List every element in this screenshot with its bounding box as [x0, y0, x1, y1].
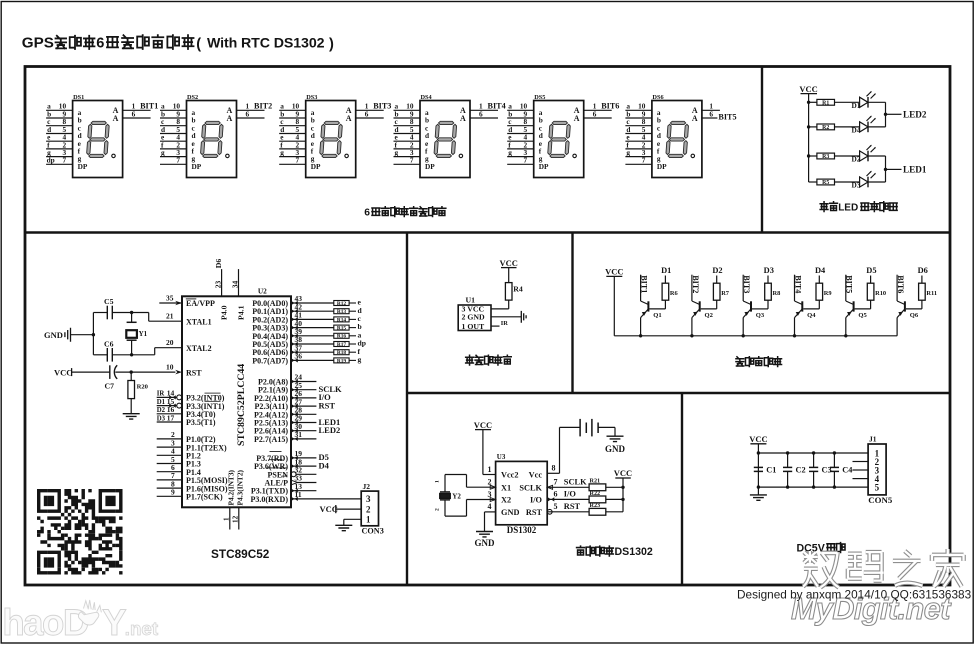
pin 30 P2.6(A14) net LED2 [254, 422, 340, 436]
svg-text:RST: RST [564, 502, 581, 511]
svg-text:GND: GND [475, 538, 496, 548]
pin 5 RST pullup resistor R23 [547, 502, 623, 515]
svg-text:D6: D6 [918, 266, 928, 275]
svg-text:GND: GND [44, 330, 63, 340]
svg-text:P1.7(SCK): P1.7(SCK) [186, 493, 223, 502]
svg-text:Y2: Y2 [452, 492, 461, 500]
svg-text:6: 6 [709, 109, 713, 118]
svg-text:BIT2: BIT2 [691, 275, 700, 293]
svg-text:12: 12 [232, 515, 240, 523]
svg-text:LED2: LED2 [319, 425, 341, 435]
transistor Q5 [844, 275, 867, 338]
ground (J2) [344, 518, 361, 520]
ground (battery) [607, 436, 624, 441]
pin 35 EA/VPP [159, 302, 182, 304]
svg-text:7: 7 [62, 156, 66, 165]
svg-text:R10: R10 [875, 290, 886, 297]
svg-text:7: 7 [642, 156, 646, 165]
svg-text:STC89C52: STC89C52 [211, 547, 270, 561]
svg-text:8: 8 [552, 464, 556, 473]
crystal Y2 [440, 491, 450, 493]
svg-text:21: 21 [166, 312, 174, 321]
svg-text:BIT5: BIT5 [718, 113, 736, 122]
svg-text:I/O: I/O [530, 496, 543, 505]
svg-text:A: A [346, 114, 352, 123]
op-amp U2 MCU STC89C52PLCC44 box [182, 296, 291, 507]
svg-text:6: 6 [554, 489, 558, 498]
svg-text:SCLK: SCLK [564, 478, 587, 487]
main schematic border [25, 67, 950, 586]
QR code [37, 489, 123, 575]
pin 25 P2.1(A9) net SCLK [258, 381, 342, 395]
7-segment display DS4 [394, 94, 506, 178]
svg-text:I/O: I/O [564, 490, 577, 499]
svg-text:VCC: VCC [474, 420, 492, 430]
pin 16 P3.4(T0) net D2 [157, 405, 216, 419]
svg-text:R7: R7 [721, 290, 730, 297]
pin 3 P1.1(T2EX) [157, 438, 227, 452]
pin 11 P3.0(RXD) [250, 490, 361, 504]
watermark: haoDIY.net [2, 600, 158, 643]
svg-text:R12: R12 [337, 301, 347, 307]
svg-text:36: 36 [295, 352, 303, 361]
svg-text:R9: R9 [824, 290, 832, 297]
pin 26 P2.2(A10) net I/O [254, 389, 331, 403]
svg-text:R5: R5 [822, 180, 829, 186]
transistor Q2 [690, 275, 713, 338]
svg-text:XTAL2: XTAL2 [186, 344, 212, 353]
pin 9 P1.7(SCK) [157, 488, 223, 502]
svg-text:RST: RST [526, 508, 543, 517]
capacitor C7 [72, 371, 110, 373]
svg-text:DP: DP [311, 162, 321, 171]
svg-text:VCC: VCC [499, 258, 517, 268]
crystal loop wires [445, 474, 467, 476]
svg-text:Designed by anxqm 2014/10 QQ:6: Designed by anxqm 2014/10 QQ:631536383 [737, 588, 972, 602]
svg-text:(: ( [196, 36, 201, 52]
ground (R20) [123, 414, 140, 419]
LED D4 [835, 116, 886, 135]
section divider: IR / digit driver [571, 233, 573, 394]
wire LED1 join [885, 156, 887, 182]
pin 36 P0.7(AD7) resistor R19 net g [252, 352, 361, 366]
svg-text:6: 6 [246, 109, 250, 118]
svg-text:BIT5: BIT5 [845, 275, 854, 293]
pin 2 P1.0(T2) [157, 430, 216, 444]
svg-text:U3: U3 [497, 453, 506, 461]
svg-text:R22: R22 [590, 490, 601, 497]
capacitor C1 [754, 451, 777, 489]
pin 39 P0.4(AD4) resistor R16 net a [252, 327, 361, 341]
svg-text:BIT1: BIT1 [140, 102, 158, 111]
resistor R1 [807, 99, 835, 106]
svg-text:Q1: Q1 [653, 312, 661, 319]
wire U1 pin3 VCC [491, 308, 509, 310]
svg-text:R21: R21 [590, 478, 601, 485]
wire pin 1 P4.2 [229, 507, 231, 529]
pin 43 P0.0(AD0) resistor R12 net e [252, 294, 361, 308]
svg-text:LED2: LED2 [903, 109, 927, 119]
pin 17 P3.5(T1) net D3 [157, 413, 216, 427]
svg-text:31: 31 [295, 430, 303, 439]
svg-text:VCC: VCC [799, 84, 817, 94]
svg-text:GND: GND [605, 444, 626, 454]
svg-text:D4: D4 [815, 266, 826, 275]
wire gnd to rails [71, 334, 94, 336]
svg-text:6: 6 [479, 109, 483, 118]
svg-text:P4.1: P4.1 [236, 305, 245, 320]
svg-text:P4.0: P4.0 [220, 305, 229, 320]
label: red LED seconds dots [820, 202, 828, 212]
resistor R5 [809, 179, 835, 186]
svg-text:D5: D5 [866, 266, 876, 275]
svg-text:R20: R20 [137, 383, 149, 390]
svg-text:1: 1 [366, 515, 371, 525]
svg-text:R6: R6 [670, 290, 679, 297]
svg-text:D1: D1 [852, 101, 861, 110]
pin 28 P2.4(A12) [254, 406, 316, 420]
svg-text:DS2: DS2 [187, 94, 198, 101]
svg-text:D2: D2 [852, 155, 861, 164]
svg-text:STC89C52PLCC44: STC89C52PLCC44 [236, 364, 247, 446]
svg-text:1: 1 [435, 480, 441, 483]
resistor R4 [508, 268, 510, 283]
resistor R11 net D6 [906, 266, 937, 309]
watermark: shuma zhijia (数码之家) [803, 551, 839, 587]
svg-text:4: 4 [488, 502, 492, 511]
svg-text:A: A [574, 114, 580, 123]
svg-text:DS1302: DS1302 [615, 546, 653, 558]
svg-text:R16: R16 [337, 334, 347, 340]
svg-text:GPS: GPS [22, 35, 54, 52]
wire U1 pin2 GND + side ground [491, 316, 521, 318]
svg-text:g: g [395, 148, 399, 157]
svg-text:R8: R8 [773, 290, 781, 297]
svg-text:U1: U1 [466, 295, 476, 304]
pin 8 P1.6(MISO) [157, 479, 228, 493]
resistor R10 net D5 [855, 266, 887, 309]
pin 37 P0.6(AD6) resistor R18 net f [252, 343, 360, 357]
wire U1 pin1 OUT net IR [491, 325, 500, 327]
svg-text:23: 23 [214, 280, 223, 288]
pin 7 SCLK pullup resistor R21 [547, 477, 625, 490]
svg-text:GND: GND [501, 508, 519, 517]
svg-text:P0.7(AD7): P0.7(AD7) [252, 356, 288, 365]
connector J1 CON5 [868, 444, 886, 495]
svg-text:BIT2: BIT2 [254, 102, 272, 111]
svg-text:P3.5(T1): P3.5(T1) [186, 418, 216, 427]
pin 6 I/O pullup resistor R22 [547, 489, 625, 502]
svg-text:R13: R13 [337, 309, 347, 315]
svg-text:D1: D1 [661, 266, 671, 275]
svg-text:10: 10 [166, 363, 174, 372]
battery BT1 [579, 419, 581, 437]
svg-text:.net: .net [125, 618, 158, 639]
svg-text:1: 1 [223, 517, 231, 521]
svg-text:BIT4: BIT4 [488, 102, 506, 111]
transistor Q6 [897, 275, 919, 336]
svg-text:17: 17 [167, 413, 175, 422]
pin 41 P0.2(AD2) resistor R14 net c [252, 311, 361, 325]
svg-text:XTAL1: XTAL1 [186, 317, 212, 326]
svg-text:DP: DP [192, 162, 202, 171]
svg-text:VCC: VCC [614, 468, 632, 478]
svg-text:LED1: LED1 [903, 164, 927, 174]
svg-text:g: g [508, 148, 512, 157]
svg-text:C7: C7 [105, 381, 115, 390]
svg-text:D3: D3 [157, 415, 166, 422]
capacitor C2 [783, 451, 806, 489]
wire LED2 join [885, 102, 887, 127]
svg-text:CON5: CON5 [868, 495, 893, 505]
svg-text:J1: J1 [869, 435, 877, 444]
svg-text:1 OUT: 1 OUT [462, 322, 486, 331]
svg-text:haoD: haoD [2, 602, 87, 643]
svg-text:A: A [113, 114, 119, 123]
pin 5 P1.3 [157, 455, 201, 469]
svg-text:C2: C2 [796, 465, 806, 474]
svg-text:R4: R4 [513, 285, 523, 294]
resistor R7 net D2 [701, 266, 730, 309]
svg-text:5: 5 [875, 482, 880, 492]
svg-text:g: g [161, 148, 165, 157]
svg-text:BIT4: BIT4 [793, 275, 802, 293]
svg-text:D4: D4 [852, 126, 861, 135]
svg-text:g: g [358, 355, 362, 364]
svg-text:P2.7(A15): P2.7(A15) [254, 435, 288, 444]
svg-text:DS5: DS5 [534, 94, 545, 101]
svg-text:RST: RST [186, 368, 202, 377]
section divider: displays / LED seconds [761, 67, 763, 233]
svg-text:1: 1 [488, 465, 492, 474]
svg-text:D6: D6 [214, 259, 223, 269]
LED D3 [835, 171, 886, 190]
svg-text:X2: X2 [501, 496, 511, 505]
svg-text:3: 3 [366, 494, 371, 504]
svg-text:DS1: DS1 [73, 94, 84, 101]
svg-text:C1: C1 [766, 465, 776, 474]
svg-text:C5: C5 [104, 297, 114, 306]
svg-text:R23: R23 [590, 502, 601, 509]
svg-text:VCC: VCC [605, 267, 623, 277]
section divider: DS1302 / power [681, 393, 683, 585]
svg-text:2: 2 [366, 504, 371, 514]
svg-text:DS3: DS3 [306, 94, 317, 101]
svg-text:D1: D1 [157, 399, 166, 406]
7-segment display DS1 [46, 94, 158, 178]
svg-text:DS1302: DS1302 [507, 525, 537, 535]
pin 27 P2.3(A11) net RST [254, 397, 335, 411]
svg-text:Q3: Q3 [756, 312, 765, 319]
resistor R6 net D1 [649, 266, 678, 309]
resistor R3 [807, 153, 835, 160]
svg-text:IR: IR [157, 391, 165, 398]
svg-text:IR: IR [501, 320, 508, 327]
wire pin 34 P4.1 [238, 269, 240, 296]
svg-text:DP: DP [539, 162, 549, 171]
svg-text:SCLK: SCLK [519, 483, 542, 492]
stub wires J1 pins 2-4 [853, 461, 869, 463]
label: digit tube driver [736, 357, 744, 366]
svg-text:2: 2 [488, 478, 492, 487]
svg-text:2: 2 [435, 508, 441, 511]
svg-text:R17: R17 [337, 342, 347, 348]
svg-text:3: 3 [488, 490, 492, 499]
svg-text:P3.0(RXD): P3.0(RXD) [250, 495, 288, 504]
section divider: middle row / bottom row [407, 392, 950, 394]
svg-text:Vcc2: Vcc2 [501, 471, 519, 480]
svg-text:D2: D2 [157, 407, 166, 414]
resistor R9 net D4 [803, 266, 831, 309]
svg-text:7: 7 [296, 156, 300, 165]
svg-text:CON3: CON3 [362, 527, 384, 536]
LED D1 [835, 91, 886, 110]
svg-text:): ) [329, 36, 334, 52]
svg-text:35: 35 [166, 293, 174, 302]
svg-text:R15: R15 [337, 326, 347, 332]
svg-text:7: 7 [410, 156, 414, 165]
svg-text:D2: D2 [712, 266, 722, 275]
pin 24 P2.0(A8) [258, 373, 316, 387]
transistor Q4 [793, 275, 816, 338]
svg-text:DS4: DS4 [421, 94, 433, 101]
svg-text:A: A [460, 114, 466, 123]
svg-text:R19: R19 [337, 358, 347, 364]
7-segment display DS3 [279, 94, 391, 178]
svg-text:A: A [227, 114, 233, 123]
label: real-time clock DS1302 [577, 546, 585, 555]
pin 32 PSEN [267, 466, 317, 480]
pin 14 P3.2(INT0) net IR [157, 389, 225, 403]
svg-text:C4: C4 [842, 465, 852, 474]
capacitor C4 [830, 451, 853, 489]
svg-text:5: 5 [554, 502, 558, 511]
pin 4 P1.2 [157, 447, 201, 461]
connector J2 CON3 [361, 491, 378, 526]
svg-text:VCC: VCC [749, 434, 767, 444]
svg-text:6: 6 [365, 109, 369, 118]
svg-text:20: 20 [166, 338, 174, 347]
wire RST pin 10 [115, 371, 175, 373]
svg-text:Y: Y [102, 602, 126, 643]
svg-text:Y1: Y1 [139, 330, 148, 338]
pin 13 P3.1(TXD) [251, 482, 317, 496]
svg-text:BIT6: BIT6 [896, 275, 905, 293]
svg-text:g: g [626, 148, 630, 157]
svg-text:34: 34 [231, 280, 240, 288]
IR receiver U1 [458, 305, 491, 331]
pin 29 P2.5(A13) net LED1 [254, 414, 340, 428]
capacitor C3 [809, 451, 832, 489]
svg-text:BIT3: BIT3 [373, 102, 391, 111]
pin 18 P3.6(WR) net D4 [254, 457, 330, 471]
svg-text:X1: X1 [501, 483, 511, 492]
svg-text:DP: DP [425, 162, 435, 171]
svg-text:EA/VPP: EA/VPP [186, 299, 215, 308]
section divider: displays / middle row [25, 231, 950, 233]
pin 33 ALE/P [264, 474, 316, 488]
svg-text:R1: R1 [822, 101, 829, 107]
svg-text:P4.3(INT2): P4.3(INT2) [236, 469, 245, 505]
svg-text:6: 6 [96, 36, 104, 52]
svg-text:7: 7 [524, 156, 528, 165]
svg-text:P4.2(INT3): P4.2(INT3) [227, 469, 236, 505]
svg-text:U2: U2 [258, 287, 267, 296]
svg-text:Q2: Q2 [705, 312, 714, 319]
pin 6 P1.4 [157, 463, 201, 477]
svg-text:6: 6 [132, 109, 136, 118]
svg-text:LED: LED [838, 203, 858, 214]
svg-text:BIT6: BIT6 [601, 102, 619, 111]
svg-text:BIT3: BIT3 [742, 275, 751, 293]
svg-text:D3: D3 [852, 181, 861, 190]
wire VCC bus [808, 94, 810, 182]
svg-text:7: 7 [176, 156, 180, 165]
svg-text:DP: DP [78, 162, 88, 171]
wire XTAL2 pin 20 [132, 354, 155, 356]
pin 42 P0.1(AD1) resistor R13 net d [252, 302, 362, 316]
wire driver common rail [614, 335, 897, 337]
crystal Y1 [131, 313, 133, 323]
resistor R2 [807, 124, 835, 131]
pin 7 P1.5(MOSI) [157, 471, 228, 485]
svg-text:A: A [692, 114, 698, 123]
LED D2 [835, 145, 886, 164]
wire pin 12 P4.3 [238, 507, 240, 529]
svg-text:dp: dp [47, 156, 55, 165]
wire XTAL1 pin 21 [132, 312, 149, 314]
pin 31 P2.7(A15) [254, 430, 316, 444]
svg-text:With RTC DS1302: With RTC DS1302 [207, 36, 325, 52]
7-segment display DS6 [625, 94, 736, 178]
svg-text:R2: R2 [822, 125, 829, 131]
RTC U3 DS1302 box [496, 461, 548, 524]
svg-text:Q4: Q4 [807, 312, 816, 319]
7-segment display DS2 [160, 94, 272, 178]
svg-text:DP: DP [657, 162, 667, 171]
resistor R8 net D3 [752, 266, 780, 309]
section divider: MCU / IR receiver column [406, 233, 408, 586]
svg-text:g: g [280, 148, 284, 157]
svg-text:7: 7 [554, 477, 558, 486]
svg-text:6: 6 [593, 109, 597, 118]
svg-text:9: 9 [171, 488, 175, 497]
pin 8 Vcc + backup battery [547, 472, 559, 474]
svg-text:R14: R14 [337, 317, 347, 323]
svg-text:R18: R18 [337, 350, 347, 356]
7-segment display DS5 [507, 94, 619, 178]
pin 38 P0.5(AD5) resistor R17 net dp [252, 335, 366, 349]
svg-text:6: 6 [364, 208, 370, 219]
pin 40 P0.3(AD3) resistor R15 net b [252, 319, 362, 333]
svg-text:2 GND: 2 GND [462, 313, 486, 322]
svg-text:VCC: VCC [54, 367, 72, 377]
pin 19 P3.7(RD) net D5 [256, 449, 329, 463]
pin 4 GND [485, 511, 496, 513]
svg-text:J2: J2 [363, 482, 371, 491]
ground (power) [750, 495, 767, 500]
transistor Q1 [639, 275, 662, 338]
svg-text:R3: R3 [822, 154, 829, 160]
pin 15 P3.3(INT1) net D1 [157, 397, 225, 411]
svg-text:D4: D4 [319, 460, 330, 470]
svg-text:BIT1: BIT1 [640, 275, 649, 293]
power rails [758, 452, 868, 454]
svg-text:RST: RST [319, 400, 336, 410]
label: IR receiver [466, 355, 474, 365]
svg-text:R11: R11 [926, 290, 937, 297]
transistor Q3 [742, 275, 765, 338]
